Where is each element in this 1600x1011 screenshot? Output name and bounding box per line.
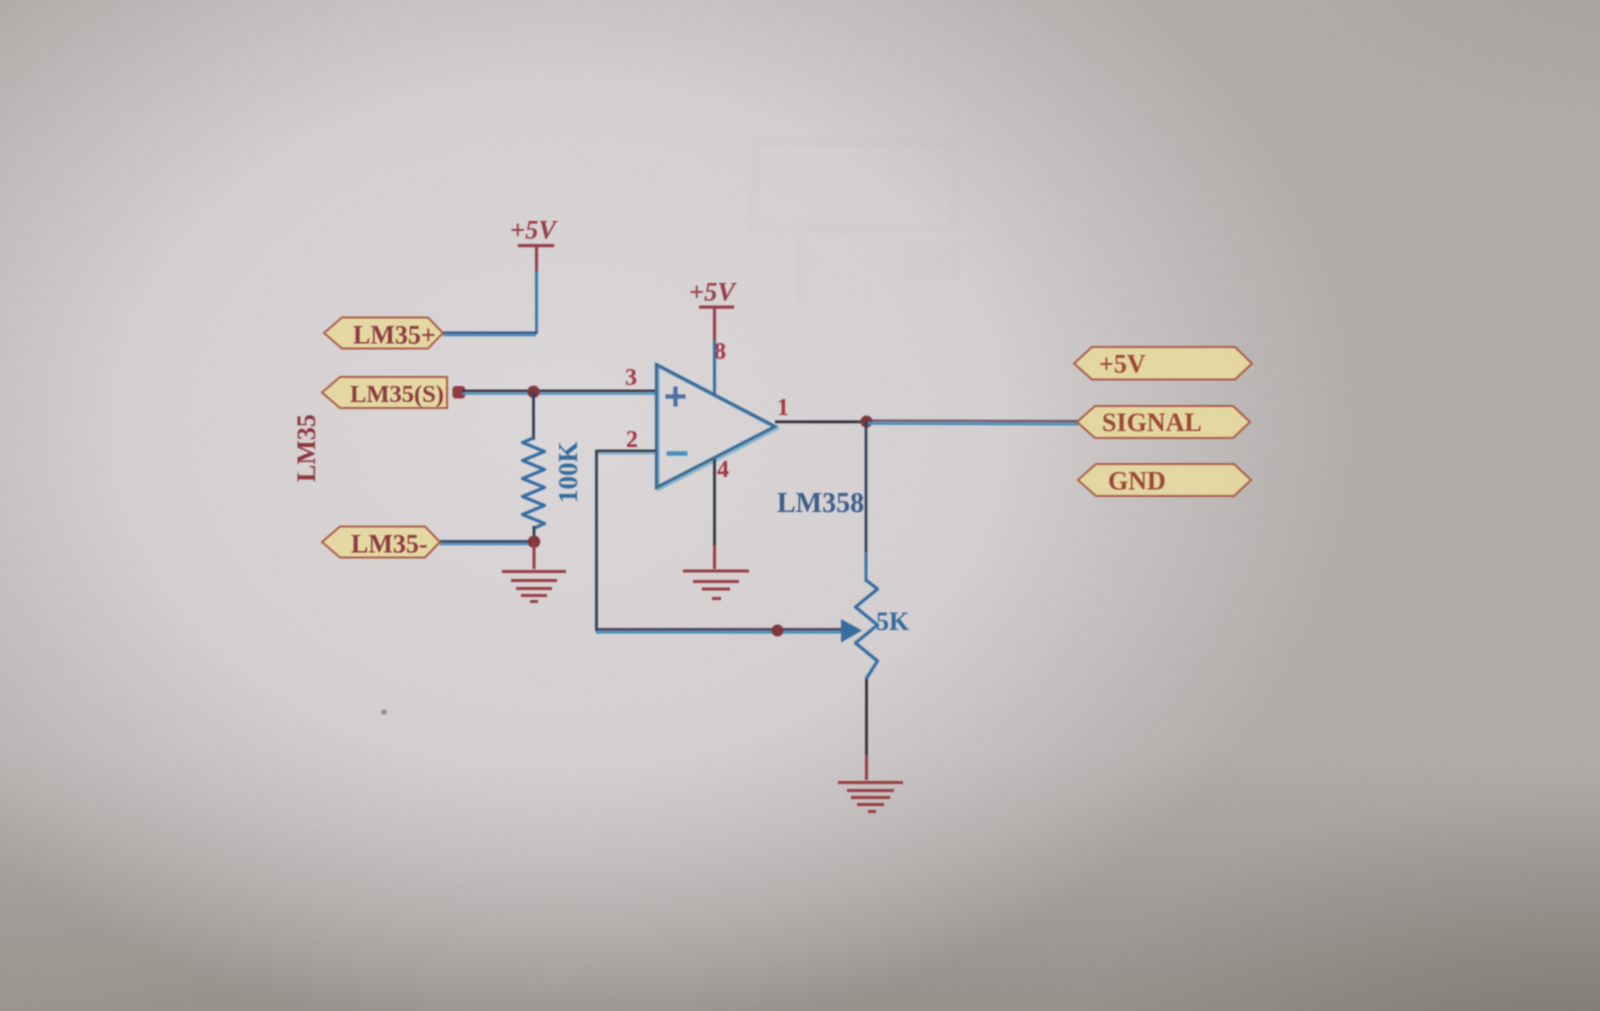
wire LM35+ to +5V horizontal [443,333,537,335]
wire resistor top stub [532,392,535,440]
ground G1 stem [533,542,536,569]
wire resistor bottom stub [533,526,536,542]
wire pin8 red part [713,308,716,341]
wire to SIGNAL [868,421,1078,425]
wire pin3 input [462,391,656,394]
wire junction C down to pot (dark upper part) [865,422,868,556]
flag LM35(S) [322,377,447,408]
potentiometer wiper arrow [841,619,862,643]
op-amp U1 LM358 triangle [657,365,776,488]
ground G1 [502,572,566,602]
junction node C [861,416,873,428]
flag LM35- [322,527,440,559]
junction node D [772,625,784,637]
ground G2 [683,571,749,599]
ground G3 [838,783,903,812]
wire feedback horizontal [596,629,843,632]
wire pin8 blue part [713,340,716,394]
power +5V symbol (op-amp) [689,277,737,309]
junction node B [528,536,540,548]
wire LM35- to node B [440,541,534,544]
op-amp plus input marker [666,387,686,407]
speck [381,709,387,715]
wire pin4 dark part [713,459,716,546]
ghost bleed-through smudges [755,142,960,306]
wire output pin1 [775,420,868,423]
op-amp minus input marker [667,451,688,456]
pad at LM35(S) tip [453,386,466,399]
resistor R1 100K zigzag [523,438,545,529]
flag LM35+ [324,318,443,350]
wire pot bottom red part [865,755,868,780]
wire +5V left vertical (blue lower part) [535,271,538,334]
flag +5V (right) [1074,347,1252,380]
flag SIGNAL [1077,406,1250,438]
wire pot bottom dark part [865,679,868,756]
wire junction C down to pot (blue lower part) [865,552,868,582]
junction node A [527,386,539,398]
wire pin2 [596,451,656,454]
wire feedback vertical [595,450,598,631]
potentiometer RV1 5K zigzag [856,580,878,679]
flag GND [1078,464,1251,496]
op-amp U1 LM358 triangle (cyan fringe) [659,367,778,490]
power +5V symbol (left) [510,215,558,248]
wire +5V left vertical (red upper part) [535,247,538,272]
wire pin4 red part [713,545,716,569]
